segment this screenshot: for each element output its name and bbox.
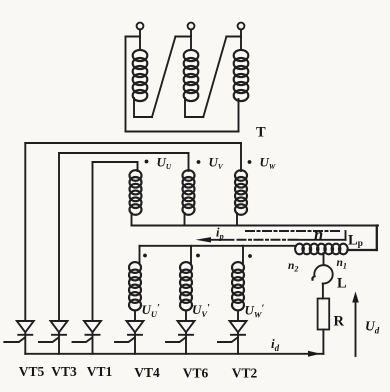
thyristor VT4 bbox=[115, 321, 144, 354]
flux center line dash-dot upper bbox=[246, 230, 342, 232]
dot polarity winding V bbox=[197, 160, 201, 164]
svg-text:VT5: VT5 bbox=[19, 364, 45, 379]
svg-text:UW: UW bbox=[260, 155, 276, 172]
primary winding 2 bbox=[184, 50, 199, 101]
wire winding V top stem bbox=[188, 153, 190, 171]
reactor Lp right edge bbox=[376, 226, 378, 251]
wire winding W top stem bbox=[240, 143, 242, 171]
svg-text:UV′: UV′ bbox=[192, 302, 210, 319]
svg-text:n: n bbox=[314, 225, 323, 244]
inductor L loop end hook bbox=[312, 276, 314, 279]
wire winding W bottom stem bbox=[236, 213, 238, 226]
svg-text:Lp: Lp bbox=[348, 233, 363, 250]
secondary winding V upper bbox=[183, 170, 195, 215]
lower winding U' top stem bbox=[139, 246, 141, 263]
arrowhead ip bbox=[196, 237, 212, 242]
transformer T primary terminal 1 bbox=[137, 23, 144, 30]
svg-text:UV: UV bbox=[209, 155, 224, 172]
secondary winding U' bbox=[129, 262, 141, 310]
arrow Ud bbox=[355, 297, 357, 356]
svg-text:UW′: UW′ bbox=[245, 303, 265, 320]
secondary winding W upper bbox=[235, 170, 247, 215]
svg-text:L: L bbox=[337, 276, 347, 292]
svg-text:UU: UU bbox=[157, 155, 172, 172]
primary winding 1 bbox=[133, 50, 148, 101]
dot polarity winding V' bbox=[196, 254, 200, 258]
wire L to R bbox=[322, 284, 324, 299]
arrowhead id bbox=[308, 351, 321, 357]
svg-text:R: R bbox=[334, 314, 345, 330]
thyristor VT6 bbox=[166, 321, 195, 354]
secondary winding V' bbox=[180, 262, 192, 310]
svg-text:VT6: VT6 bbox=[183, 366, 209, 381]
wire Lp center tap bbox=[323, 253, 325, 265]
dot polarity winding U' bbox=[143, 254, 147, 258]
wire cathode bottom rail bbox=[25, 353, 323, 355]
reactor Lp winding bbox=[295, 244, 348, 255]
resistor R bbox=[318, 299, 330, 330]
primary winding 3 bbox=[234, 50, 249, 101]
lower winding V' top stem bbox=[190, 246, 192, 263]
svg-text:T: T bbox=[256, 125, 266, 141]
thyristor VT2 bbox=[218, 321, 247, 354]
dot polarity winding U bbox=[145, 160, 149, 164]
transformer T primary terminal 3 bbox=[238, 23, 245, 30]
wire primary left jog bbox=[126, 36, 141, 38]
wire delta diagonal 2 bbox=[203, 37, 226, 117]
lower winding W' top stem bbox=[242, 246, 244, 263]
wire feeder horizontal to winding W bbox=[25, 142, 241, 144]
flux center line right end bbox=[345, 231, 347, 240]
wire winding U' to VT4 bbox=[134, 310, 136, 321]
svg-text:VT4: VT4 bbox=[134, 365, 160, 380]
wire winding V' to VT6 bbox=[185, 310, 187, 321]
wire terminal2 stem bbox=[190, 29, 192, 50]
wire primary left rail bbox=[125, 37, 127, 132]
dot polarity winding W bbox=[248, 160, 252, 164]
wire feeder horizontal to winding V bbox=[59, 152, 189, 154]
wire feeder horizontal to winding U bbox=[93, 161, 138, 163]
wire winding U bottom stem bbox=[131, 213, 133, 226]
wire upper neutral rail bbox=[132, 225, 379, 227]
wire terminal3 stem bbox=[240, 29, 242, 50]
wire winding U top stem bbox=[137, 162, 139, 171]
thyristor VT5 bbox=[4, 321, 34, 354]
svg-text:UU′: UU′ bbox=[142, 302, 161, 319]
secondary winding U upper bbox=[130, 170, 142, 215]
wire primary jog 2 bbox=[175, 36, 191, 38]
wire R to bottom rail bbox=[322, 330, 324, 354]
svg-text:VT3: VT3 bbox=[51, 364, 77, 379]
svg-text:VT2: VT2 bbox=[232, 366, 258, 381]
svg-text:n1: n1 bbox=[337, 257, 347, 271]
svg-text:id: id bbox=[271, 336, 280, 353]
wire primary jog 3 bbox=[226, 36, 241, 38]
wire Lp bottom right segment bbox=[348, 249, 377, 251]
thyristor VT3 bbox=[39, 321, 68, 354]
svg-text:Ud: Ud bbox=[365, 319, 380, 336]
svg-text:ip: ip bbox=[216, 226, 224, 242]
wire terminal1 stem bbox=[139, 29, 141, 50]
wire primary coil2 bottom hook bbox=[185, 98, 203, 117]
inductor L loop bbox=[314, 265, 332, 283]
dot polarity winding W' bbox=[248, 254, 252, 258]
ip dash-dot line bbox=[209, 239, 234, 241]
wire lower neutral rail bbox=[140, 245, 297, 247]
secondary winding W' bbox=[232, 262, 244, 310]
thyristor VT1 bbox=[73, 321, 102, 354]
wire winding V bottom stem bbox=[184, 213, 186, 226]
wire delta diagonal 1 bbox=[152, 37, 175, 117]
wire feeder vertical to VT5 bbox=[24, 143, 26, 321]
wire feeder vertical to VT1 bbox=[92, 162, 94, 321]
svg-text:VT1: VT1 bbox=[87, 364, 113, 379]
transformer T primary terminal 2 bbox=[188, 23, 195, 30]
svg-text:n2: n2 bbox=[288, 260, 298, 274]
wire primary coil1 bottom hook bbox=[134, 98, 152, 117]
wire primary bottom rail bbox=[126, 131, 239, 133]
wire winding W' to VT2 bbox=[237, 310, 239, 321]
wire feeder vertical to VT3 bbox=[58, 153, 60, 321]
arrowhead Ud bbox=[352, 292, 359, 303]
wire primary coil3 bottom stem bbox=[238, 99, 240, 132]
